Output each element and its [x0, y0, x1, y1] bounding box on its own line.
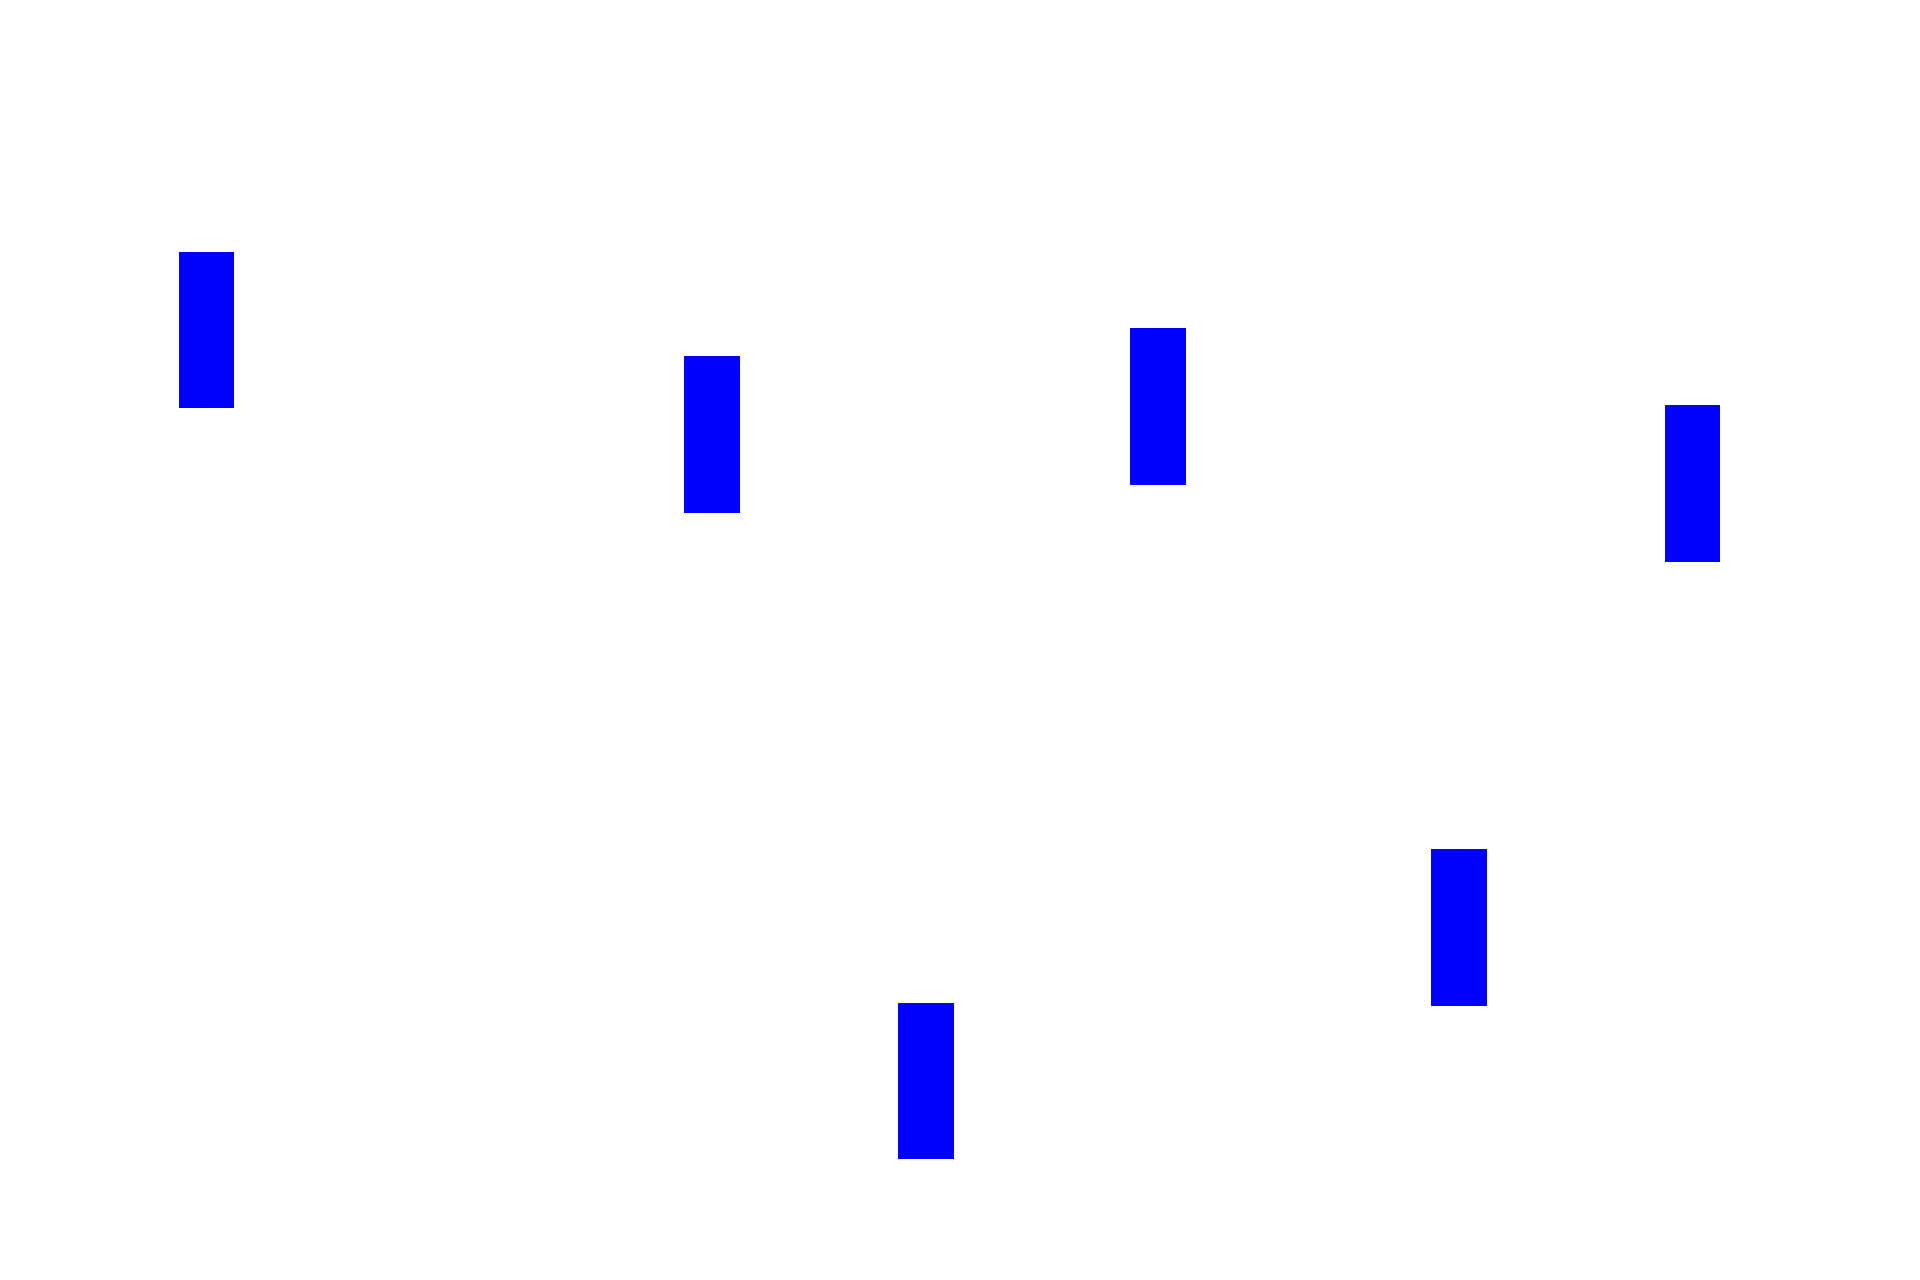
bar 5 [1431, 849, 1487, 1006]
bar 4 [1665, 405, 1720, 562]
bar 1 [179, 252, 234, 408]
bar 6 [898, 1003, 954, 1159]
bar 2 [684, 356, 740, 513]
bar 3 [1130, 328, 1186, 485]
